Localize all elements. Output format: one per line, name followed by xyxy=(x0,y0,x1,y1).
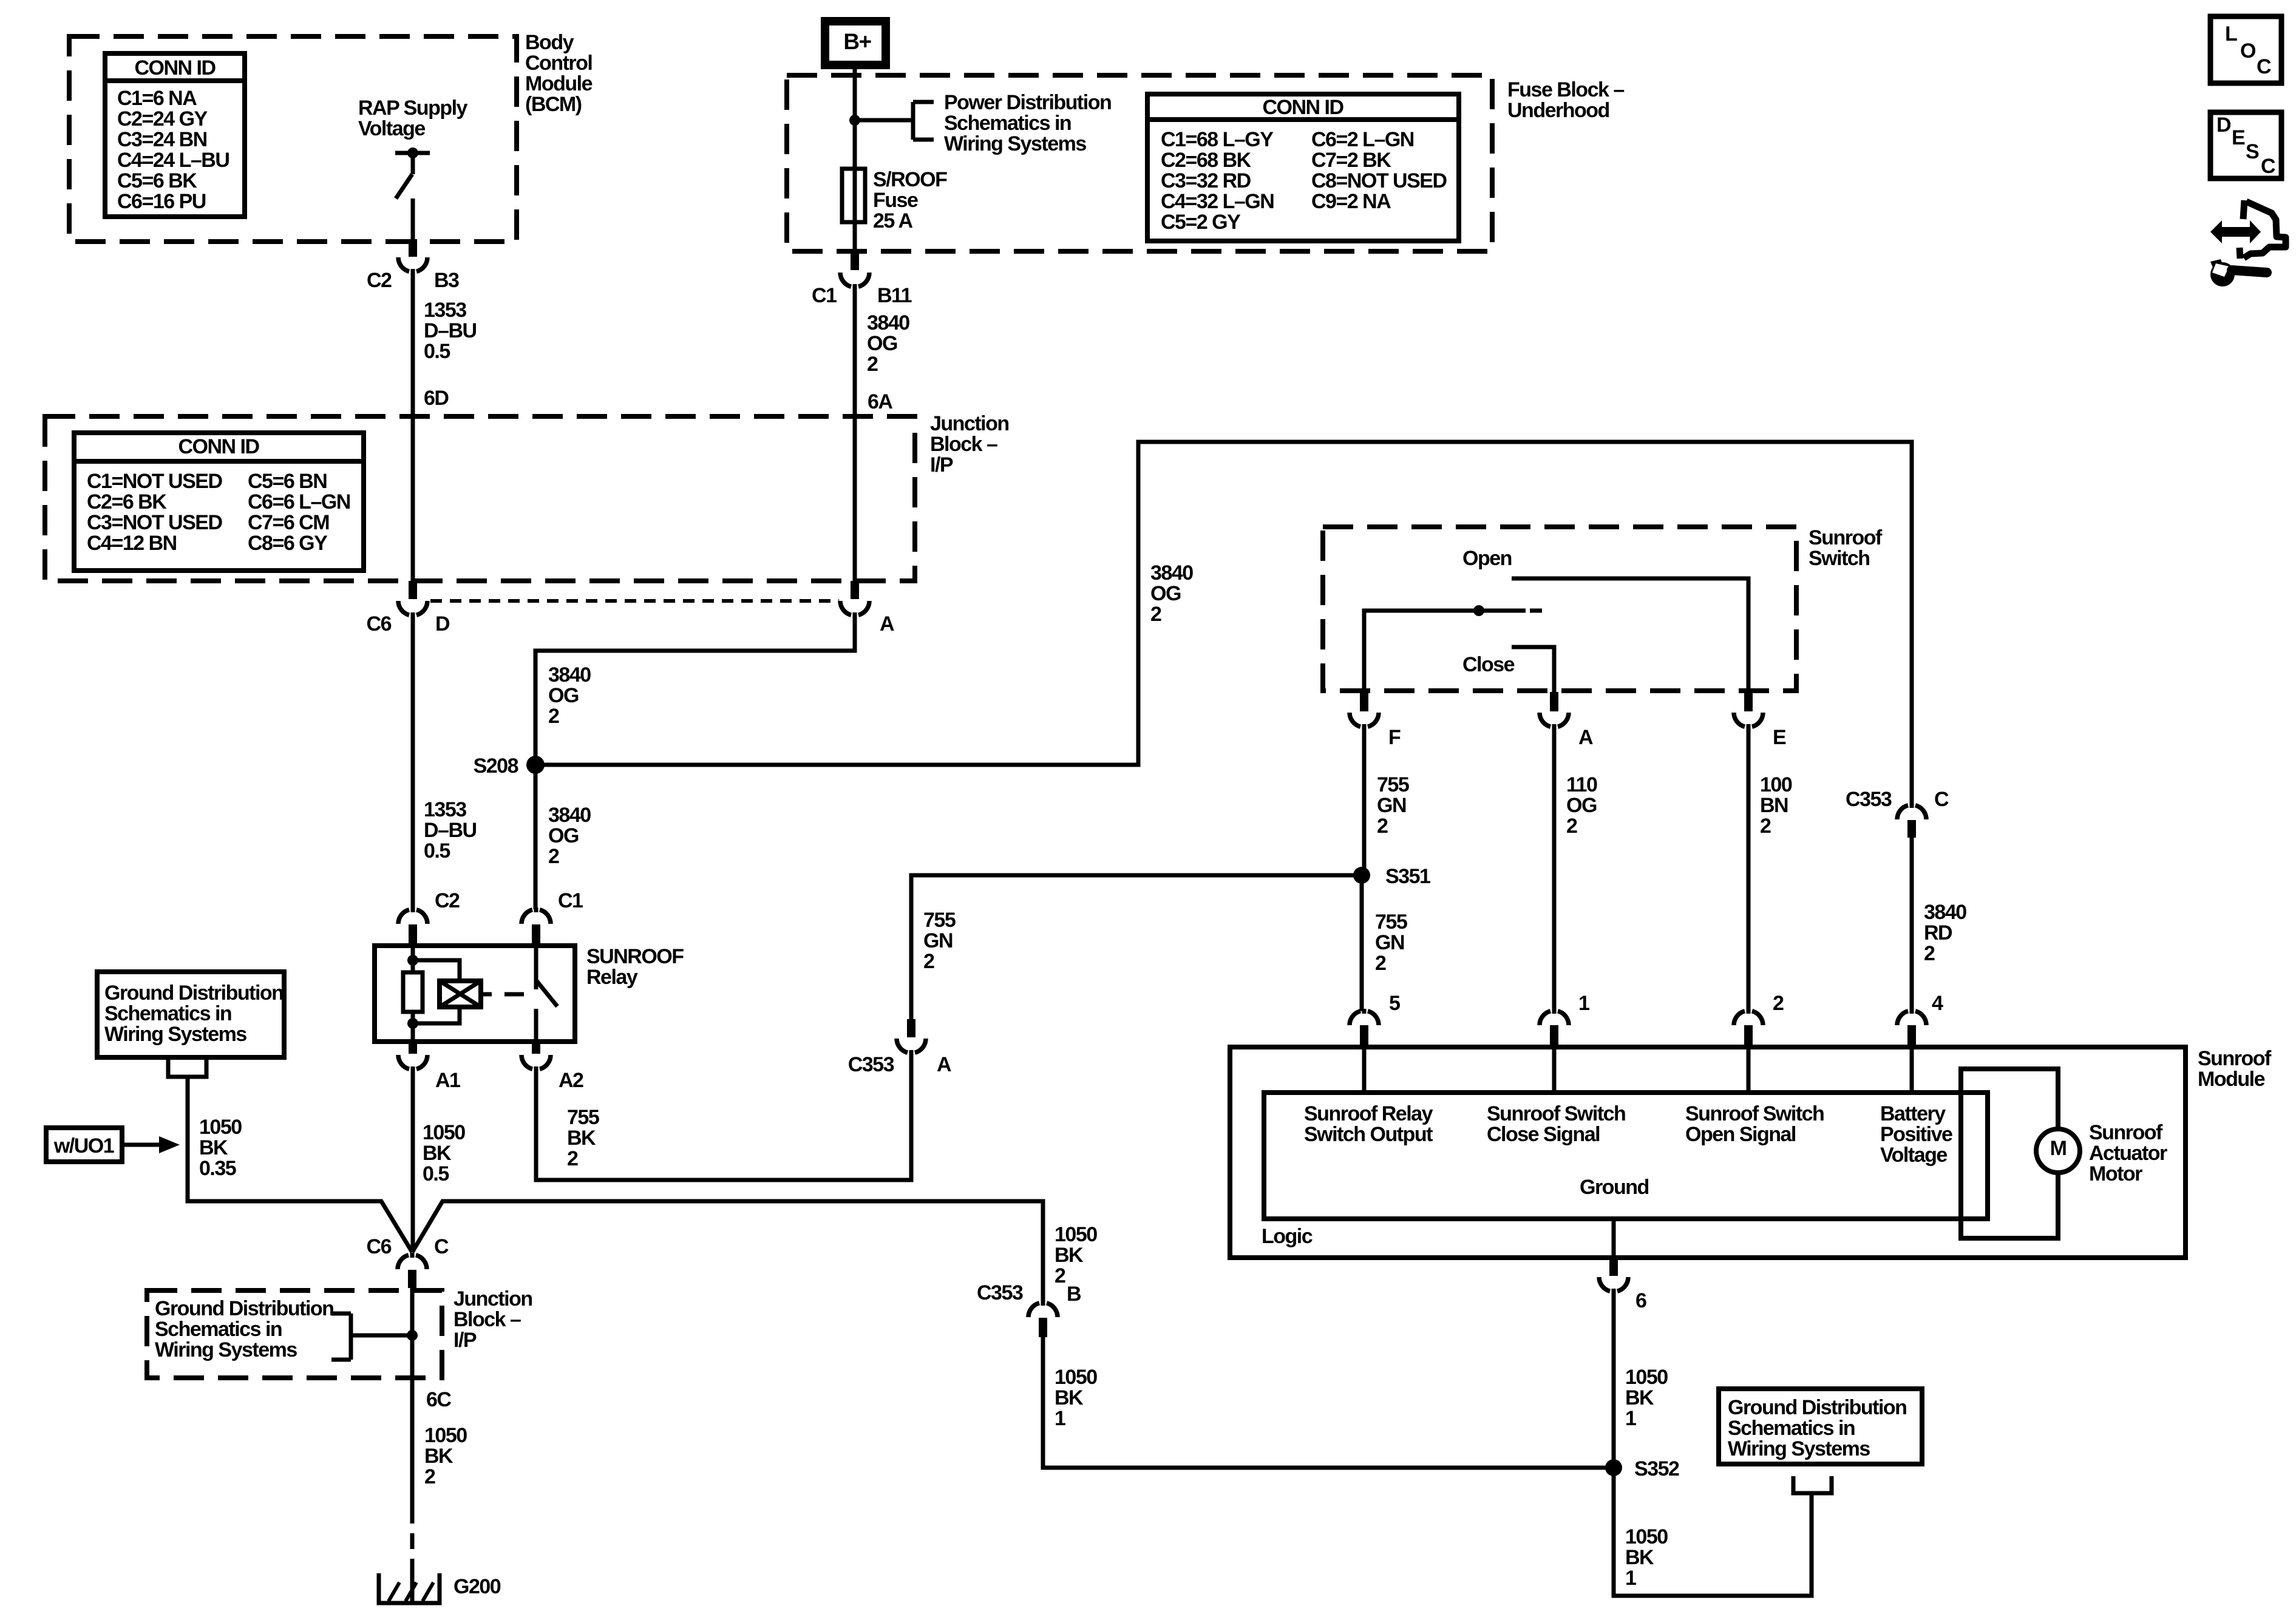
wire label 1050 BK 2 xyxy=(424,1424,467,1488)
svg-text:w/UO1: w/UO1 xyxy=(53,1134,114,1158)
motor M circle xyxy=(2036,1129,2080,1173)
wire label 755 GN 2 at C353 A xyxy=(923,909,956,973)
relay coil loop xyxy=(413,960,460,1023)
svg-text:Open Signal: Open Signal xyxy=(1685,1123,1796,1146)
connector A of sunroof switch xyxy=(1540,692,1593,749)
svg-text:110: 110 xyxy=(1566,773,1597,796)
wire: A2 right to C353 A, circuit 755 xyxy=(536,1053,911,1180)
svg-text:Sunroof: Sunroof xyxy=(2198,1047,2272,1070)
open contact wire to terminal E xyxy=(1512,578,1748,692)
svg-text:GN: GN xyxy=(923,929,953,952)
module pin 1 connector xyxy=(1540,992,1589,1046)
terminal label 6D xyxy=(424,387,449,410)
svg-text:Ground Distribution: Ground Distribution xyxy=(1728,1396,1906,1419)
svg-text:Control: Control xyxy=(525,52,592,75)
svg-text:Module: Module xyxy=(2198,1068,2265,1091)
svg-text:GN: GN xyxy=(1375,931,1404,954)
svg-text:C353: C353 xyxy=(1846,788,1892,811)
splice S208 xyxy=(474,754,545,778)
svg-text:0.35: 0.35 xyxy=(199,1157,236,1180)
svg-text:S208: S208 xyxy=(474,754,518,778)
svg-text:2: 2 xyxy=(548,845,559,868)
terminal label 6A xyxy=(868,390,892,413)
connector E of sunroof switch xyxy=(1734,692,1786,749)
wire: logic ground to module pin 6 xyxy=(1612,1219,1616,1258)
bracket below lower right ground distribution box xyxy=(1793,1476,1832,1493)
Junction Block - I/P dashed box xyxy=(45,416,915,581)
connector C2 / B3 at BCM output xyxy=(367,239,459,292)
svg-text:C: C xyxy=(2261,155,2275,178)
service tool icon: double arrow, panel outline and wrench xyxy=(2210,200,2286,286)
Sunroof Relay Switch Output input label xyxy=(1304,1102,1433,1146)
svg-text:3840: 3840 xyxy=(1150,561,1193,585)
svg-text:B: B xyxy=(1067,1283,1081,1306)
svg-text:A: A xyxy=(880,612,894,636)
svg-text:C6=16 PU: C6=16 PU xyxy=(117,190,206,213)
svg-text:Sunroof Switch: Sunroof Switch xyxy=(1487,1102,1625,1125)
Sunroof Switch dashed box xyxy=(1323,527,1796,691)
wire: A down to module pin 1 xyxy=(1552,727,1557,1011)
svg-text:2: 2 xyxy=(1150,603,1161,626)
svg-text:Schematics in: Schematics in xyxy=(1728,1417,1855,1440)
BCM CONN ID table xyxy=(105,53,245,217)
svg-text:Relay: Relay xyxy=(586,966,638,989)
svg-text:2: 2 xyxy=(1375,952,1386,975)
svg-text:Fuse: Fuse xyxy=(873,189,918,212)
svg-text:C353: C353 xyxy=(848,1053,894,1076)
svg-text:1050: 1050 xyxy=(423,1121,465,1144)
svg-text:C353: C353 xyxy=(977,1281,1023,1304)
wire label 1050 BK 1 below S352 xyxy=(1625,1525,1668,1590)
ground G200 xyxy=(379,1573,501,1603)
svg-text:I/P: I/P xyxy=(453,1329,477,1352)
splice S352 xyxy=(1605,1457,1679,1480)
svg-text:Block –: Block – xyxy=(453,1308,521,1331)
svg-text:B3: B3 xyxy=(434,269,459,292)
svg-text:1050: 1050 xyxy=(424,1424,467,1447)
svg-text:BK: BK xyxy=(567,1127,596,1150)
terminal label 6C xyxy=(426,1388,451,1411)
svg-text:Ground Distribution: Ground Distribution xyxy=(155,1297,333,1320)
svg-text:C1: C1 xyxy=(558,889,583,912)
svg-text:100: 100 xyxy=(1760,773,1792,796)
switch wiper common to terminal F xyxy=(1364,605,1542,692)
Junction Block - I/P dashed box (lower) xyxy=(147,1290,442,1378)
svg-text:Body: Body xyxy=(525,31,574,54)
svg-text:Wiring Systems: Wiring Systems xyxy=(155,1338,297,1361)
connector C1 at relay xyxy=(521,889,583,944)
svg-text:0.5: 0.5 xyxy=(424,839,450,863)
svg-text:1050: 1050 xyxy=(199,1116,242,1139)
svg-text:Wiring Systems: Wiring Systems xyxy=(104,1023,246,1046)
svg-text:CONN ID: CONN ID xyxy=(178,435,259,458)
wire: C353 C down to module pin 4 xyxy=(1910,838,1914,1011)
LOC reference box xyxy=(2210,16,2281,83)
Ground Distribution note box (left) xyxy=(97,972,284,1057)
svg-text:3840: 3840 xyxy=(548,663,591,686)
wire label 1050 BK 0.35 xyxy=(199,1116,242,1180)
svg-text:6A: 6A xyxy=(868,390,892,413)
svg-text:Sunroof: Sunroof xyxy=(2089,1121,2163,1144)
connector C6 / D below junction block xyxy=(367,581,450,636)
connector A below junction block xyxy=(840,581,894,636)
module pin 5 connector xyxy=(1350,992,1400,1046)
svg-text:0.5: 0.5 xyxy=(423,1162,449,1185)
svg-text:5: 5 xyxy=(1389,992,1400,1015)
wire label 3840 OG 2 below S208 xyxy=(548,804,591,868)
svg-text:2: 2 xyxy=(867,353,878,376)
svg-text:C2=68 BK: C2=68 BK xyxy=(1161,149,1252,172)
S/ROOF fuse 25 A xyxy=(842,168,947,232)
Open contact label xyxy=(1462,547,1512,570)
svg-text:D: D xyxy=(2216,114,2231,137)
Ground Distribution note box (lower right) xyxy=(1719,1389,1922,1464)
svg-text:C3=NOT USED: C3=NOT USED xyxy=(87,511,222,534)
wire label 755 GN 2 below F xyxy=(1377,773,1409,838)
wires from module pins into logic block xyxy=(1364,1046,1912,1093)
wire: BCM switch to connector C2/B3 xyxy=(411,198,415,239)
svg-text:25 A: 25 A xyxy=(873,209,913,232)
relay coil branch wire xyxy=(407,946,418,1042)
svg-text:Logic: Logic xyxy=(1262,1225,1313,1248)
svg-text:BK: BK xyxy=(199,1136,228,1159)
svg-text:M: M xyxy=(2050,1137,2067,1160)
svg-text:755: 755 xyxy=(923,909,956,932)
svg-text:Close: Close xyxy=(1462,653,1515,676)
svg-text:1: 1 xyxy=(1578,992,1589,1015)
svg-text:Schematics in: Schematics in xyxy=(155,1318,282,1341)
svg-text:1050: 1050 xyxy=(1055,1366,1097,1389)
Logic label xyxy=(1262,1225,1313,1248)
svg-text:C5=2 GY: C5=2 GY xyxy=(1161,211,1241,234)
svg-text:C6=2 L–GN: C6=2 L–GN xyxy=(1311,128,1414,151)
wire + bracket to Power Distribution note xyxy=(855,102,934,140)
wire label 755 GN 2 above module pin 5 xyxy=(1375,910,1407,975)
svg-text:Junction: Junction xyxy=(453,1287,532,1310)
wire: E down to module pin 2 xyxy=(1747,727,1751,1011)
svg-text:Module: Module xyxy=(525,72,593,95)
svg-text:A2: A2 xyxy=(559,1069,583,1092)
svg-text:1: 1 xyxy=(1625,1407,1636,1430)
svg-text:C2=24 GY: C2=24 GY xyxy=(117,107,208,131)
wire: C353 B down and right to S352 xyxy=(1043,1337,1614,1468)
wire: F down to S351 xyxy=(1362,727,1367,875)
svg-text:C7=6 CM: C7=6 CM xyxy=(248,511,329,534)
Sunroof Switch Open Signal label xyxy=(1685,1102,1824,1146)
Fuse Block - Underhood dashed box xyxy=(787,75,1492,251)
module logic box xyxy=(1264,1093,1988,1219)
Junction Block - I/P label (lower) xyxy=(453,1287,532,1352)
svg-text:C8=6 GY: C8=6 GY xyxy=(248,532,328,555)
hidden wire segment to G200 xyxy=(410,1508,415,1601)
svg-text:Fuse Block –: Fuse Block – xyxy=(1507,78,1624,101)
svg-text:Ground Distribution: Ground Distribution xyxy=(104,981,283,1005)
Junction Block - I/P label xyxy=(930,412,1009,476)
relay coil symbol xyxy=(440,981,524,1007)
wire label 3840 RD 2 xyxy=(1924,901,1966,965)
connector C353 C xyxy=(1846,788,1949,838)
svg-text:BK: BK xyxy=(1055,1386,1084,1409)
svg-text:2: 2 xyxy=(923,950,934,973)
svg-text:S/ROOF: S/ROOF xyxy=(873,168,947,191)
wire: ground distribution down and right to C6/C junction xyxy=(188,1077,412,1252)
svg-text:BK: BK xyxy=(1625,1546,1654,1569)
svg-text:2: 2 xyxy=(1055,1264,1065,1287)
svg-text:755: 755 xyxy=(1377,773,1409,796)
svg-text:(BCM): (BCM) xyxy=(525,93,582,116)
RAP Supply Voltage label xyxy=(358,97,468,140)
wire label 1050 BK 1 below pin 6 xyxy=(1625,1366,1668,1430)
svg-text:C: C xyxy=(2257,55,2271,78)
relay switch contacts xyxy=(536,946,557,1042)
svg-text:CONN ID: CONN ID xyxy=(134,56,216,80)
wire label 1050 BK 2 at C353 B xyxy=(1055,1223,1097,1287)
svg-text:Underhood: Underhood xyxy=(1507,99,1609,122)
wire label 100 BN 2 below E xyxy=(1760,773,1792,838)
svg-text:C6: C6 xyxy=(367,612,392,636)
svg-text:6C: 6C xyxy=(426,1388,451,1411)
svg-text:S351: S351 xyxy=(1385,865,1430,888)
wire label 110 OG 2 below A xyxy=(1566,773,1597,838)
svg-text:C1: C1 xyxy=(812,284,837,307)
svg-text:3840: 3840 xyxy=(548,804,591,827)
svg-text:1353: 1353 xyxy=(424,299,466,322)
svg-text:C8=NOT USED: C8=NOT USED xyxy=(1311,169,1447,192)
svg-text:OG: OG xyxy=(867,332,897,355)
svg-text:C2=6 BK: C2=6 BK xyxy=(87,490,167,514)
wire: B11 down to junction block, circuit 3840 xyxy=(853,287,857,581)
svg-text:Sunroof Relay: Sunroof Relay xyxy=(1304,1102,1433,1125)
bracket from note to wire xyxy=(331,1314,412,1360)
svg-text:1353: 1353 xyxy=(424,798,466,821)
svg-text:C: C xyxy=(434,1235,449,1258)
svg-text:755: 755 xyxy=(567,1106,599,1129)
svg-text:C4=12 BN: C4=12 BN xyxy=(87,532,177,555)
svg-text:E: E xyxy=(1773,726,1786,749)
DESC reference box xyxy=(2210,112,2281,178)
svg-text:6: 6 xyxy=(1635,1289,1646,1312)
svg-text:C1=6 NA: C1=6 NA xyxy=(117,87,197,110)
svg-text:Ground: Ground xyxy=(1580,1176,1649,1199)
svg-text:C6: C6 xyxy=(367,1235,392,1258)
svg-text:D–BU: D–BU xyxy=(424,319,477,342)
wire label 3840 OG 2 xyxy=(867,311,909,376)
svg-text:Actuator: Actuator xyxy=(2089,1142,2167,1165)
svg-text:I/P: I/P xyxy=(930,453,953,476)
svg-text:3840: 3840 xyxy=(1924,901,1966,924)
svg-text:Schematics in: Schematics in xyxy=(104,1002,231,1025)
wire label 755 BK 2 xyxy=(567,1106,599,1170)
svg-text:B11: B11 xyxy=(877,284,912,307)
svg-text:S352: S352 xyxy=(1634,1457,1679,1480)
wire label 1050 BK 1 below C353 B xyxy=(1055,1366,1097,1430)
svg-text:C7=2 BK: C7=2 BK xyxy=(1311,149,1391,172)
wire: A1 down to ground junction xyxy=(411,1070,415,1252)
svg-text:A: A xyxy=(1578,726,1593,749)
connector F of sunroof switch xyxy=(1350,692,1401,749)
module pin 4 connector xyxy=(1897,992,1943,1046)
svg-text:1: 1 xyxy=(1055,1407,1065,1430)
svg-text:Battery: Battery xyxy=(1880,1102,1946,1125)
svg-text:BK: BK xyxy=(423,1142,452,1165)
Sunroof Module box xyxy=(1230,1047,2186,1258)
RAP supply voltage switch (open) inside BCM xyxy=(395,147,430,198)
junction block CONN ID table xyxy=(74,433,364,571)
svg-text:C3=32 RD: C3=32 RD xyxy=(1161,169,1251,192)
svg-text:Switch Output: Switch Output xyxy=(1304,1123,1433,1146)
svg-text:D: D xyxy=(435,612,450,636)
wire: S351 down to module pin 5 xyxy=(1360,875,1364,1011)
svg-text:S: S xyxy=(2246,140,2259,163)
dotted connector tie line between C6/D and A xyxy=(430,599,839,603)
svg-text:2: 2 xyxy=(1566,815,1577,838)
connector A2 at relay xyxy=(521,1042,583,1092)
wire: connector A jog to S208 xyxy=(535,615,855,765)
svg-text:GN: GN xyxy=(1377,794,1406,817)
svg-text:Schematics in: Schematics in xyxy=(944,112,1071,135)
svg-text:C9=2 NA: C9=2 NA xyxy=(1311,190,1391,213)
wire label 1050 BK 0.5 xyxy=(423,1121,465,1185)
svg-text:2: 2 xyxy=(424,1465,435,1488)
svg-text:BK: BK xyxy=(424,1445,453,1468)
svg-text:C4=24 L–BU: C4=24 L–BU xyxy=(117,149,229,172)
module pin 6 connector xyxy=(1599,1258,1646,1312)
junction node in fuse block xyxy=(849,115,860,126)
sunroof actuator motor loop xyxy=(1961,1069,2058,1238)
svg-text:1050: 1050 xyxy=(1625,1525,1668,1548)
svg-text:OG: OG xyxy=(1566,794,1597,817)
SUNROOF Relay box xyxy=(375,946,575,1042)
svg-text:OG: OG xyxy=(1150,582,1181,605)
svg-text:Switch: Switch xyxy=(1809,547,1870,570)
module pin 2 connector xyxy=(1734,992,1784,1046)
svg-text:CONN ID: CONN ID xyxy=(1262,96,1343,119)
svg-text:Sunroof Switch: Sunroof Switch xyxy=(1685,1102,1824,1125)
wire: S208 right, up and across to C353 C, circuit 3840 xyxy=(535,442,1912,805)
connector C1 / B11 at fuse block output xyxy=(812,251,912,307)
svg-text:BK: BK xyxy=(1055,1244,1084,1267)
BCM name label xyxy=(525,31,593,116)
svg-text:2: 2 xyxy=(1924,942,1935,965)
svg-text:4: 4 xyxy=(1932,992,1943,1015)
relay resistor xyxy=(403,972,423,1012)
svg-text:C5=6 BK: C5=6 BK xyxy=(117,169,197,192)
svg-text:A: A xyxy=(937,1053,951,1076)
svg-text:C6=6 L–GN: C6=6 L–GN xyxy=(248,490,350,514)
svg-text:1050: 1050 xyxy=(1055,1223,1097,1246)
connector C353 A xyxy=(848,1019,951,1076)
svg-text:C2: C2 xyxy=(367,269,392,292)
svg-text:B+: B+ xyxy=(843,29,871,54)
svg-text:Block –: Block – xyxy=(930,433,997,456)
wire label 3840 OG 2 on riser xyxy=(1150,561,1193,626)
svg-text:1: 1 xyxy=(1625,1567,1636,1590)
Battery Positive Voltage label xyxy=(1880,1102,1952,1167)
svg-text:RAP Supply: RAP Supply xyxy=(358,97,468,120)
svg-text:RD: RD xyxy=(1924,921,1952,944)
svg-text:O: O xyxy=(2240,39,2256,63)
svg-text:2: 2 xyxy=(1760,815,1771,838)
svg-text:0.5: 0.5 xyxy=(424,340,450,363)
bracket below ground distribution box xyxy=(168,1060,206,1077)
svg-text:C1=68 L–GY: C1=68 L–GY xyxy=(1161,128,1274,151)
svg-text:C: C xyxy=(1934,788,1949,811)
wire: B+ down through fuse xyxy=(853,65,857,251)
svg-text:E: E xyxy=(2232,126,2245,149)
svg-text:2: 2 xyxy=(1773,992,1784,1015)
wire: through lower junction block xyxy=(410,1288,415,1508)
svg-text:D–BU: D–BU xyxy=(424,819,477,842)
w/UO1 tag box xyxy=(46,1128,122,1162)
SUNROOF Relay label xyxy=(586,945,684,989)
svg-text:Positive: Positive xyxy=(1880,1123,1952,1146)
svg-text:SUNROOF: SUNROOF xyxy=(586,945,684,968)
Fuse Block label xyxy=(1507,78,1624,122)
wire: pin 6 down to S352 xyxy=(1612,1292,1616,1468)
svg-text:Power Distribution: Power Distribution xyxy=(944,91,1111,114)
svg-text:Close Signal: Close Signal xyxy=(1487,1123,1600,1146)
svg-text:C2: C2 xyxy=(435,889,460,912)
svg-text:3840: 3840 xyxy=(867,311,909,334)
Sunroof Switch label xyxy=(1809,526,1883,570)
connector A1 at relay xyxy=(398,1042,460,1092)
wire: B3 down to junction block, circuit 1353 xyxy=(411,272,415,581)
wire: connector D down to relay C2, circuit 1353 xyxy=(411,615,415,909)
svg-text:6D: 6D xyxy=(424,387,449,410)
svg-text:Sunroof: Sunroof xyxy=(1809,526,1883,549)
svg-text:G200: G200 xyxy=(453,1575,501,1598)
Close contact label xyxy=(1462,653,1515,676)
Sunroof Module label xyxy=(2198,1047,2272,1091)
svg-text:2: 2 xyxy=(548,705,559,728)
Ground Distribution note inside lower junction block xyxy=(155,1297,333,1361)
close contact wire to terminal A xyxy=(1512,647,1554,692)
svg-text:BK: BK xyxy=(1625,1386,1654,1409)
svg-text:Junction: Junction xyxy=(930,412,1009,435)
wire: S352 to ground distribution (lower right) xyxy=(1614,1468,1812,1596)
Body Control Module (BCM) dashed box xyxy=(69,36,517,242)
junction node on ground wire xyxy=(407,1330,418,1341)
wire label 3840 OG 2 xyxy=(548,663,591,728)
svg-text:L: L xyxy=(2225,22,2237,46)
svg-text:C4=32 L–GN: C4=32 L–GN xyxy=(1161,190,1274,213)
wire: S351 left to C353 A xyxy=(911,875,1362,1019)
Sunroof Switch Close Signal label xyxy=(1487,1102,1625,1146)
svg-text:C5=6 BN: C5=6 BN xyxy=(248,470,327,493)
wire: S208 down to relay C1 xyxy=(534,765,538,909)
fuse block CONN ID table xyxy=(1147,94,1459,241)
svg-text:BN: BN xyxy=(1760,794,1788,817)
wire label 1353 D-BU 0.5 xyxy=(424,299,477,363)
connector C2 at relay xyxy=(398,889,460,944)
arrow from w/UO1 to ground wire xyxy=(124,1136,180,1153)
svg-text:C1=NOT USED: C1=NOT USED xyxy=(87,470,222,493)
splice S351 xyxy=(1353,865,1430,888)
connector C6 / C into lower junction block xyxy=(367,1235,449,1288)
ground bus wire right branch to C353 B xyxy=(412,1201,1043,1303)
svg-text:Wiring Systems: Wiring Systems xyxy=(1728,1437,1870,1460)
battery feed B+ box xyxy=(825,21,886,65)
svg-text:OG: OG xyxy=(548,684,579,707)
svg-text:OG: OG xyxy=(548,824,579,847)
svg-text:2: 2 xyxy=(1377,815,1388,838)
svg-text:Voltage: Voltage xyxy=(1880,1144,1947,1167)
svg-text:A1: A1 xyxy=(435,1069,460,1092)
svg-text:Open: Open xyxy=(1462,547,1512,570)
svg-text:2: 2 xyxy=(567,1147,578,1170)
wire label 1353 D-BU 0.5 xyxy=(424,798,477,863)
Ground label xyxy=(1580,1176,1649,1199)
